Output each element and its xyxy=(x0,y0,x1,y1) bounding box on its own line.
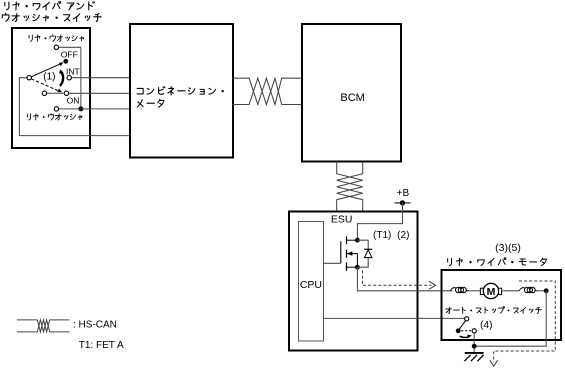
label: rear washer (top, inside switch box) xyxy=(29,35,84,42)
box: rear wiper motor xyxy=(442,270,562,340)
svg-text:(T1): (T1) xyxy=(373,230,391,241)
wire: FET source output to wiper motor xyxy=(357,267,452,291)
junction: source node xyxy=(355,265,360,270)
box: combination meter xyxy=(130,24,233,158)
svg-text:T1: FET A: T1: FET A xyxy=(79,340,124,351)
box: BCM xyxy=(302,24,401,162)
wire: ON contact to combination meter xyxy=(69,92,130,94)
box: ESU xyxy=(289,212,418,351)
svg-text:ON: ON xyxy=(67,96,80,106)
transistor T1: body lead with arrow xyxy=(347,251,358,267)
svg-text:(4): (4) xyxy=(480,320,492,331)
svg-text:(2): (2) xyxy=(397,230,409,241)
inductor: right noise suppression coil xyxy=(519,287,537,292)
wire: coil to motor left brush xyxy=(469,290,481,292)
rotation arrow (1) curved xyxy=(59,70,63,86)
transistor T1: FET channel source stroke xyxy=(346,262,348,270)
auto stop switch: pole contact xyxy=(465,317,469,321)
svg-text:+B: +B xyxy=(397,188,410,199)
contact: bottom rear washer terminal xyxy=(54,107,58,111)
wire: top washer contact to inner vertical xyxy=(59,46,81,48)
box: rear wiper and washer switch S1 xyxy=(12,28,90,148)
wire: right coil to corner node xyxy=(537,290,546,292)
auto stop switch: park contact xyxy=(472,329,476,333)
wire: INT contact to combination meter xyxy=(71,77,129,79)
auto stop switch: arm to run contact xyxy=(459,321,465,330)
wire: park contact down to ground xyxy=(473,333,475,353)
motor M: left brush xyxy=(480,288,483,294)
transistor T1: FET channel body stroke xyxy=(346,250,348,258)
contact: common pole xyxy=(27,76,31,80)
label: rear wiper motor xyxy=(448,258,547,266)
label: auto stop switch xyxy=(446,307,541,314)
wire: motor right brush to right coil xyxy=(502,290,520,292)
label: combination meter line 1 xyxy=(137,87,224,95)
contact: top rear washer terminal xyxy=(54,45,58,49)
wire: bottom washer contact to combination meter xyxy=(59,108,130,110)
svg-text:INT: INT xyxy=(66,67,80,77)
transistor T1: drain lead xyxy=(347,239,358,241)
svg-text:(3)(5): (3)(5) xyxy=(495,242,521,254)
box: CPU xyxy=(299,222,324,342)
auto stop switch: motion arrow xyxy=(460,335,472,339)
dashed signal arrow: ESU output toward motor xyxy=(363,271,436,290)
diode: triangle xyxy=(365,250,372,258)
dashed mechanical link: motor to park switch path with down arrow xyxy=(490,281,556,366)
HS-CAN twisted pair: combination meter to BCM xyxy=(233,78,302,104)
svg-text:ESU: ESU xyxy=(331,214,353,226)
motor M: armature circle xyxy=(483,283,498,298)
HS-CAN twisted pair: BCM to ESU xyxy=(337,162,363,212)
junction: drain node xyxy=(355,238,360,243)
wire: motor return down and left to ground node xyxy=(474,291,546,346)
label: combination meter line 2 xyxy=(137,99,164,107)
label: rear washer (bottom, inside switch box) xyxy=(27,113,82,120)
motor M: right brush xyxy=(499,288,502,294)
contact: INT terminal xyxy=(67,76,71,80)
ground: chassis ground symbol xyxy=(464,353,483,361)
svg-text:: HS-CAN: : HS-CAN xyxy=(73,319,117,330)
contact: OFF position (filled) xyxy=(63,59,68,64)
power: +B terminal bar xyxy=(395,202,411,204)
power: +B junction dot xyxy=(400,200,405,205)
switch arm: pole to OFF (solid with arrowhead) xyxy=(31,62,63,76)
wire: inner vertical washer bus xyxy=(80,47,82,109)
svg-text:BCM: BCM xyxy=(340,92,364,104)
junction: motor return corner node xyxy=(544,288,549,293)
svg-text:(1): (1) xyxy=(43,72,55,83)
contact: washer arm pivot xyxy=(42,91,46,95)
diode: cathode bar xyxy=(364,248,372,250)
contact: ON terminal xyxy=(64,91,68,95)
transistor T1: FET gate bar xyxy=(340,241,342,263)
auto stop switch: run contact (filled) xyxy=(456,328,461,333)
legend: HS-CAN twisted pair symbol xyxy=(17,320,70,332)
svg-text:CPU: CPU xyxy=(300,279,322,291)
diode: body diode branch wires xyxy=(357,240,368,267)
svg-text:M: M xyxy=(487,286,496,298)
transistor T1: FET gate lead from CPU xyxy=(324,262,341,264)
wire: CPU output to auto stop switch xyxy=(324,317,465,319)
inductor: left noise suppression coil xyxy=(450,287,469,292)
switch arm: washer dashed link with arrowhead xyxy=(31,79,62,92)
junction: washer bus joins bottom washer wire xyxy=(78,106,83,111)
svg-text:OFF: OFF xyxy=(61,49,78,59)
junction: ground node under motor box xyxy=(472,344,477,349)
transistor T1: source lead xyxy=(347,266,358,268)
transistor T1: FET channel drain stroke xyxy=(346,236,348,244)
wire: +B feed to FET drain xyxy=(357,203,402,240)
wire: switch common pole return to combination meter xyxy=(19,78,129,136)
auto stop switch: dashed link to park contact xyxy=(461,330,471,332)
label: rear wiper and washer switch title line 1 xyxy=(5,1,95,10)
label: rear wiper and washer switch title line 2 xyxy=(2,13,101,21)
switch arm: washer pivot bar to ON contact xyxy=(47,92,65,94)
